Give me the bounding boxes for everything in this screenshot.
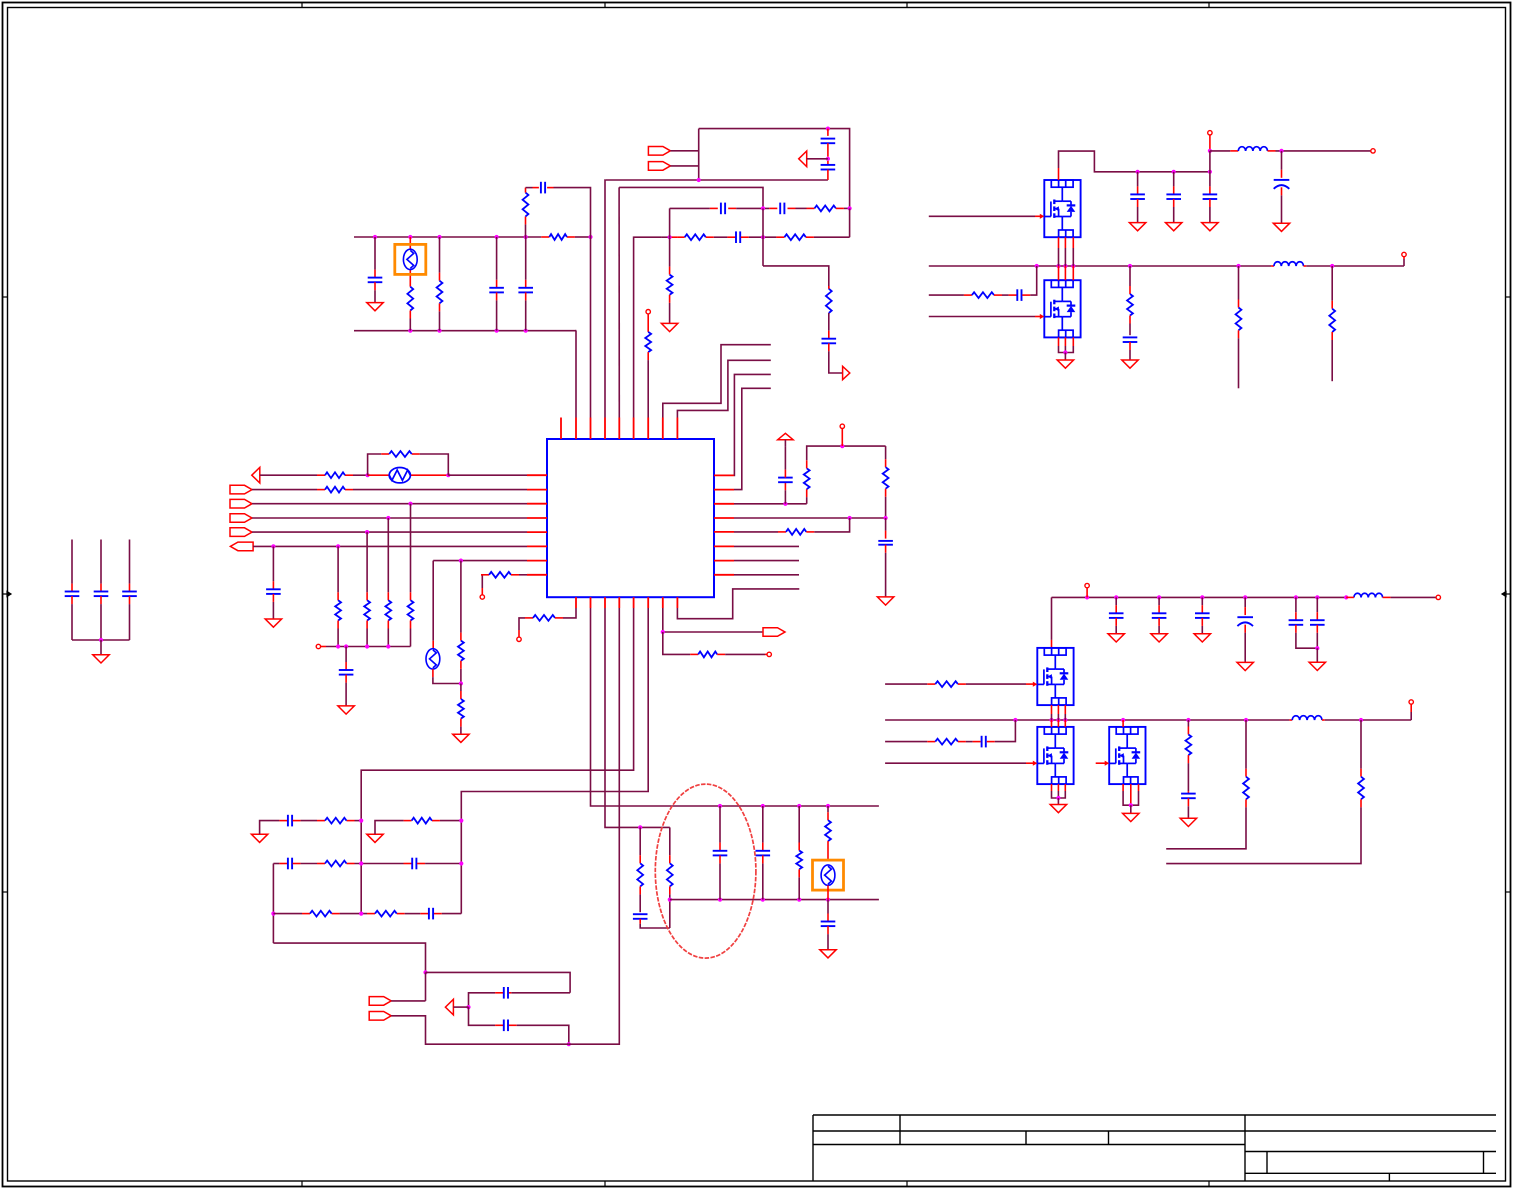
junction row863 x361 bbox=[359, 861, 363, 865]
capacitor C2 bbox=[489, 237, 504, 331]
junction row820 x461 bbox=[459, 819, 463, 823]
resistor R29 bbox=[825, 806, 831, 860]
wire row237 corner to IC pin 633 bbox=[633, 237, 635, 417]
wire row5 bbox=[252, 531, 527, 533]
wire bus266 left bbox=[929, 265, 1274, 267]
ground row820 b bbox=[367, 834, 383, 842]
capacitor C17 bbox=[1166, 172, 1181, 223]
wire row518 bbox=[734, 517, 886, 519]
resistor R32 bbox=[325, 861, 347, 867]
lead R8 top bbox=[828, 286, 830, 289]
resistor R23 bbox=[883, 446, 889, 517]
junction row827 bbox=[638, 825, 642, 829]
Q5 gate stub bbox=[1096, 762, 1106, 764]
junction row1 b bbox=[446, 473, 450, 477]
wire pin590 down bbox=[591, 608, 879, 806]
wire row7 bbox=[433, 560, 527, 562]
junction x468 bbox=[466, 1005, 470, 1009]
ground C22 bbox=[1194, 634, 1210, 642]
resistor RA on top bus bbox=[549, 234, 567, 240]
resistor R11 bbox=[389, 451, 412, 457]
ground C12 bbox=[338, 706, 354, 714]
resistor R9 bbox=[645, 332, 651, 352]
wire vert 669 upper bbox=[669, 208, 671, 237]
resistor R30 bbox=[325, 818, 347, 824]
wire vert 763 bbox=[763, 208, 829, 288]
capacitor C11 bbox=[266, 546, 281, 619]
gate arrow Q2 bbox=[1040, 314, 1045, 319]
branch x1332 bbox=[1329, 266, 1335, 381]
junction dots top bus bbox=[373, 235, 593, 239]
wire R24 corner bbox=[806, 518, 849, 532]
wire lineA corner to IC pin 605 bbox=[604, 180, 606, 418]
wire Y3 bus bbox=[827, 885, 829, 899]
IC U1 left pins bbox=[527, 475, 547, 575]
resistor R16 branch bbox=[408, 504, 414, 647]
junction dot line A bbox=[697, 178, 701, 182]
Q5 top pin bbox=[1122, 720, 1124, 727]
junction x669 bbox=[668, 898, 672, 902]
capacitor C22 bbox=[1195, 597, 1210, 633]
wire row3 bbox=[252, 503, 527, 505]
crystal Y2 bbox=[426, 649, 440, 669]
flag row1000 bbox=[369, 997, 391, 1006]
Q4 top pins bbox=[1052, 720, 1066, 727]
wire C9-R6 bbox=[741, 236, 785, 238]
branch x640 bbox=[633, 827, 670, 928]
capacitor C27 bbox=[713, 806, 728, 900]
capacitor C5 top bbox=[821, 129, 836, 157]
junction row518 a bbox=[848, 516, 852, 520]
capacitor C31 bbox=[288, 858, 292, 870]
resistor R12 bbox=[325, 487, 345, 493]
IC U1 right pins bbox=[714, 475, 734, 574]
wire top bus bbox=[354, 236, 591, 238]
resistor R13 branch bbox=[335, 546, 341, 646]
junction x425 bbox=[423, 970, 427, 974]
junction row1 a bbox=[366, 473, 370, 477]
capacitor C32 bbox=[412, 858, 416, 870]
capacitor C9 bbox=[736, 231, 740, 243]
crystal Y1 bbox=[395, 244, 426, 274]
red ellipse highlight bbox=[655, 784, 756, 958]
inductor L1 bbox=[1238, 147, 1267, 151]
vert x273 bbox=[272, 864, 274, 944]
wire pin662 branch bbox=[663, 632, 698, 654]
resistor R26 bbox=[935, 681, 958, 687]
capacitor C38 bbox=[122, 540, 137, 641]
resistor R5 bbox=[685, 234, 706, 240]
wire R21 to circle bbox=[717, 653, 767, 655]
ground x1130 bbox=[1122, 360, 1138, 368]
capacitor C34 bbox=[504, 987, 508, 999]
junction dots bus720 bbox=[1013, 718, 1363, 722]
ground Q4 bbox=[1050, 798, 1066, 813]
wire row1 a bbox=[260, 474, 368, 476]
resistor R8 bbox=[826, 289, 832, 313]
wire v1 right bbox=[1210, 150, 1238, 152]
junction dots bus806 bbox=[718, 804, 830, 808]
junction row820 x361 bbox=[359, 819, 363, 823]
Q5 bottom pins bbox=[1123, 784, 1138, 805]
wire flag1 bbox=[670, 129, 698, 151]
wire row820 c bbox=[375, 821, 461, 835]
resistor R33 bbox=[310, 911, 332, 917]
crystal Y3 bbox=[813, 860, 844, 890]
circle bus597 bbox=[1085, 583, 1089, 597]
junction row503 bbox=[783, 502, 787, 506]
inductor L2 bbox=[1274, 262, 1304, 266]
wire R7 to gnd bbox=[669, 295, 671, 324]
IC U1 body bbox=[547, 439, 714, 597]
flag output row632 bbox=[763, 628, 785, 637]
wire bus720 right bbox=[1322, 719, 1411, 721]
Q3 gate wire bbox=[885, 683, 935, 685]
resistor R10 bbox=[325, 472, 345, 478]
wire C7-C8 bbox=[728, 207, 777, 209]
flag row5 bbox=[230, 528, 252, 537]
circle row446 bbox=[840, 424, 844, 446]
wire Y2 to junction bbox=[433, 669, 461, 683]
resistor R2 leads bbox=[439, 237, 441, 331]
resistor R19 bbox=[489, 572, 511, 578]
resistor R25 bbox=[972, 292, 994, 298]
junction row7 bbox=[459, 559, 463, 563]
wire L4 leads bbox=[1346, 596, 1436, 598]
wire row4 bbox=[252, 517, 527, 519]
junction row518 b bbox=[884, 516, 888, 520]
Q4 bottom pins bbox=[1052, 784, 1066, 798]
wire row863 c bbox=[417, 863, 461, 865]
junction mid caps bbox=[826, 157, 830, 161]
wire flag2 bbox=[670, 151, 698, 180]
junction row4 bbox=[386, 516, 390, 520]
wire top rail bbox=[699, 129, 850, 209]
junction leftcaps bbox=[99, 638, 103, 642]
resistor R3 bbox=[523, 188, 529, 237]
wire row820 a bbox=[260, 821, 288, 835]
ground C23 bbox=[1237, 662, 1253, 670]
capacitor C14 bbox=[878, 518, 893, 597]
ground C24C25 bbox=[1309, 648, 1325, 670]
wire vert 849 bbox=[849, 208, 851, 237]
circle v1 out bbox=[1371, 149, 1375, 153]
mosfet Q5 bbox=[1109, 727, 1145, 784]
branch x669 bbox=[667, 827, 673, 928]
capacitor C26 bbox=[982, 736, 986, 748]
capacitor C36 bbox=[65, 540, 80, 641]
wire row863 a bbox=[273, 863, 287, 865]
capacitor C28 bbox=[756, 806, 771, 900]
circle R9 bbox=[646, 310, 650, 332]
inductor L4 bbox=[1354, 593, 1383, 597]
title block bbox=[813, 1115, 1496, 1181]
wire row1044 to pin619 bbox=[569, 608, 620, 1044]
resistor R34 bbox=[375, 911, 397, 917]
wire R27-C26 bbox=[958, 741, 981, 743]
IC U1 bottom pins bbox=[576, 597, 677, 608]
junction dots bottom bus bbox=[408, 329, 528, 333]
rc row741 wire bbox=[885, 741, 935, 743]
resistor R20 bbox=[533, 615, 555, 621]
flag row1015 bbox=[369, 1012, 391, 1021]
wire bus720 left bbox=[885, 719, 1292, 721]
ground leftcaps bbox=[93, 640, 109, 663]
ground C20 bbox=[1108, 634, 1124, 642]
resistor R1 bbox=[407, 287, 413, 311]
power flag VCC bbox=[778, 433, 793, 439]
rc row295 wire bbox=[929, 294, 972, 296]
resistor R27 bbox=[935, 739, 958, 745]
crystal Y1 leads bbox=[409, 237, 411, 287]
wire row560 stub bbox=[734, 560, 799, 562]
flag input 1 bbox=[648, 147, 670, 156]
wire x273 low path bbox=[273, 943, 425, 972]
junction x568 bbox=[567, 1042, 571, 1046]
junction row913 x361 bbox=[359, 912, 363, 916]
resistor R7 bbox=[667, 275, 673, 295]
circle R21 bbox=[767, 652, 771, 656]
bypass loop R11 bbox=[368, 454, 449, 475]
wire pin662 flag bbox=[663, 608, 763, 632]
terminal circle left bus bbox=[316, 644, 326, 648]
wire lineB to IC pin 619 bbox=[618, 187, 620, 417]
wire row863 b bbox=[293, 863, 412, 865]
wire R5-C9 bbox=[706, 236, 736, 238]
Q2 bottom pins bbox=[1059, 337, 1074, 352]
wire bus899 bbox=[670, 899, 879, 901]
wire Q1 gate bbox=[929, 215, 1041, 217]
mosfet Q1 bbox=[1044, 180, 1080, 237]
varistor RV1 leads bbox=[368, 474, 449, 476]
junction row6 a bbox=[271, 544, 275, 548]
branch x1246 bbox=[1166, 720, 1249, 849]
wire R19 to IC bbox=[511, 574, 527, 576]
wire row503 bbox=[734, 503, 807, 505]
junction row237 bbox=[668, 235, 672, 239]
wire C4 to junction bbox=[547, 188, 590, 237]
Q4 gate wire bbox=[885, 762, 1034, 764]
junction C24C25 bbox=[1315, 646, 1319, 650]
wire pin633 down bbox=[361, 608, 633, 914]
wire rpin475 up bbox=[734, 374, 771, 475]
junction row6 b bbox=[336, 544, 340, 548]
capacitor C1 bbox=[368, 237, 383, 303]
ground x1188 bbox=[1180, 818, 1196, 826]
wire C8-R4 bbox=[788, 207, 815, 209]
capacitor C18 bbox=[1203, 172, 1218, 223]
flag arrow row1007 bbox=[445, 999, 468, 1015]
wire row6 bbox=[253, 545, 527, 547]
wire R4 right bbox=[836, 207, 850, 209]
wire R3 to cap C4 bbox=[526, 187, 539, 189]
wire C19 up bbox=[1022, 266, 1036, 295]
ground C14 bbox=[877, 597, 893, 605]
wire pin677 path bbox=[677, 589, 799, 619]
ground C11 bbox=[265, 619, 281, 627]
resistor R17 bbox=[458, 561, 464, 684]
capacitor C24 bbox=[1289, 597, 1318, 648]
junction row3 bbox=[408, 502, 412, 506]
capacitor C25 bbox=[1310, 597, 1325, 648]
capacitor C16 bbox=[1130, 172, 1145, 223]
wire bus597 bbox=[1052, 596, 1347, 598]
junction dots bus266 bbox=[1035, 264, 1335, 268]
flag arrow row1 bbox=[252, 467, 260, 483]
wire pin605 down bbox=[605, 608, 640, 827]
junction row208 right bbox=[848, 206, 852, 210]
wire v1 down bbox=[1209, 151, 1211, 172]
wire R20 to pin bbox=[555, 608, 576, 618]
IC U1 top pins bbox=[561, 418, 677, 440]
Q3 top wire bbox=[1051, 597, 1053, 648]
flag row2 bbox=[230, 485, 252, 494]
circle bus720 out bbox=[1409, 700, 1413, 720]
junction row5 bbox=[365, 530, 369, 534]
capacitor C35 bbox=[504, 1020, 508, 1032]
junction row863 x461 bbox=[459, 861, 463, 865]
junction L1 bbox=[1279, 149, 1283, 153]
resistor R2 bbox=[437, 281, 443, 304]
wire tpin662 path bbox=[663, 345, 771, 418]
mosfet Q3 bbox=[1037, 648, 1073, 705]
power cap C13 bbox=[778, 446, 793, 504]
branch x1188 bbox=[1181, 720, 1196, 818]
wire row574 stub bbox=[734, 574, 799, 576]
wire row992 bbox=[469, 993, 571, 1007]
wire bus to IC pin 576 bbox=[575, 331, 577, 418]
polar cap C23 bbox=[1237, 597, 1253, 662]
wire line A bbox=[605, 179, 828, 181]
mosfet Q4 bbox=[1037, 727, 1073, 784]
branch x1238 bbox=[1236, 266, 1242, 388]
junction v1 bbox=[1208, 149, 1212, 153]
crystal Y2 lead top bbox=[432, 561, 434, 649]
resistor R15 branch bbox=[385, 518, 391, 647]
resistor R31 bbox=[412, 818, 432, 824]
wire bottom bus bbox=[354, 330, 576, 332]
resistor R28 bbox=[796, 806, 802, 900]
junction dots rail171 bbox=[1136, 170, 1213, 174]
gate arrow Q4 bbox=[1033, 761, 1038, 766]
wire VCC stem bbox=[784, 440, 786, 446]
junction row237 mid bbox=[761, 235, 765, 239]
wire C26 up bbox=[987, 720, 1016, 742]
junction dot top rail bbox=[826, 127, 830, 131]
capacitor C4 bbox=[541, 182, 545, 194]
capacitor C6 bottom bbox=[821, 161, 836, 180]
wire L1 right bbox=[1268, 150, 1371, 152]
capacitor C19 bbox=[1017, 289, 1021, 301]
junction pin662 bbox=[661, 630, 665, 634]
ground R18 bbox=[453, 734, 469, 742]
ground row820 a bbox=[251, 834, 267, 842]
capacitor C33 bbox=[429, 908, 433, 920]
wire rpin489 up bbox=[734, 388, 771, 489]
resistor R24 bbox=[786, 529, 806, 535]
ground C17 bbox=[1166, 223, 1182, 231]
wire row237 right bbox=[634, 236, 685, 238]
lead 669 to R7 bbox=[669, 237, 671, 274]
junction Q2 gnd bbox=[1063, 350, 1067, 354]
polar cap C15 bbox=[1274, 151, 1290, 223]
wire left bus bbox=[326, 646, 411, 648]
resistor R6 bbox=[784, 234, 806, 240]
resistor R4 bbox=[815, 206, 836, 212]
wire flag row1015 bbox=[391, 1016, 569, 1044]
wire row913 bbox=[273, 913, 461, 915]
capacitor C29 bbox=[821, 900, 836, 950]
capacitor C37 bbox=[94, 540, 109, 641]
junction circle row446 bbox=[840, 444, 844, 448]
flag row6 left bbox=[230, 542, 253, 551]
capacitor C7 bbox=[721, 203, 725, 215]
flag row4 bbox=[230, 514, 252, 523]
branch x1130 bbox=[1123, 266, 1138, 360]
flag output left C5C6 bbox=[799, 151, 828, 167]
circle bus266 out bbox=[1402, 252, 1406, 266]
wire R9 to IC bbox=[647, 352, 649, 417]
flag row3 bbox=[230, 499, 252, 508]
wire row 208 bbox=[670, 207, 718, 209]
wire R1 to bus bbox=[409, 311, 411, 331]
junctions left bus bbox=[336, 644, 390, 648]
ground R7 bbox=[661, 323, 677, 331]
wire row1 b bbox=[448, 474, 527, 476]
wire R6 to corner bbox=[806, 236, 850, 238]
junction row208 bbox=[761, 206, 765, 210]
resistor R18 bbox=[458, 684, 464, 735]
gate arrow Q1 bbox=[1040, 214, 1045, 219]
junction Q4 gnd bbox=[1056, 796, 1060, 800]
gate arrow Q5 bbox=[1105, 761, 1110, 766]
ground C1 bbox=[367, 303, 383, 311]
ground C15 bbox=[1273, 223, 1289, 231]
circle R20 bbox=[517, 618, 533, 642]
wire Q1 top bbox=[1059, 151, 1210, 180]
circle bus597 out bbox=[1436, 595, 1440, 599]
wire Q2 gate bbox=[929, 316, 1041, 318]
wire pin648 down bbox=[461, 608, 648, 914]
wire row2 bbox=[252, 489, 527, 491]
resistor R22 bbox=[804, 446, 886, 504]
circle top v1 bbox=[1208, 131, 1212, 151]
ground C29 bbox=[820, 950, 836, 958]
row8 circle bbox=[480, 575, 489, 599]
junction dots bus899 bbox=[718, 898, 830, 902]
wire leftcaps bus bbox=[72, 639, 130, 641]
capacitor C8 bbox=[780, 203, 784, 215]
wire row1025 bbox=[469, 1007, 569, 1044]
capacitor C3 bbox=[518, 237, 533, 331]
resistor R21 bbox=[698, 652, 717, 658]
branch x1361 bbox=[1166, 720, 1364, 864]
ground C16 bbox=[1129, 223, 1145, 231]
flag input 2 bbox=[648, 162, 670, 171]
wire row820 b bbox=[293, 820, 362, 822]
junction dots bus597 bbox=[1085, 595, 1348, 599]
inductor L5 bbox=[1292, 716, 1322, 720]
junction crystal2 bbox=[459, 681, 463, 685]
wire row532 bbox=[734, 531, 786, 533]
capacitor C20 bbox=[1109, 597, 1124, 633]
gate arrow Q3 bbox=[1033, 682, 1038, 687]
mosfet Q2 bbox=[1044, 280, 1080, 337]
junction Q5 gnd bbox=[1129, 803, 1133, 807]
capacitor C12 bbox=[339, 647, 354, 706]
ground Q2 bbox=[1057, 353, 1073, 369]
capacitor C10 bbox=[822, 313, 843, 373]
